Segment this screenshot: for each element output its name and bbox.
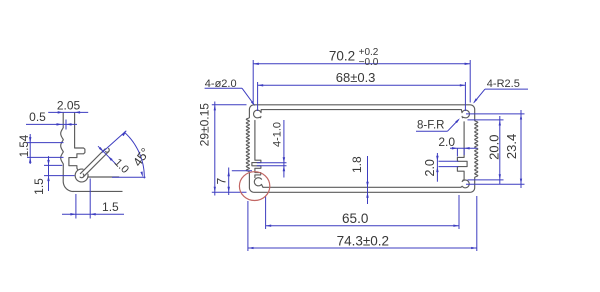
dim 23.4 hole spacing (right) (466, 113, 525, 115)
dim 74.3±0.2 overall width (247, 201, 249, 251)
svg-text:−0.0: −0.0 (359, 57, 379, 68)
detail: slot outer end cap (106, 148, 110, 152)
dim 1.0 slot width (98, 146, 116, 164)
detail: boss pedestal ledge (88, 176, 119, 177)
svg-text:7: 7 (215, 178, 229, 185)
svg-text:70.2: 70.2 (329, 48, 355, 63)
red detail callout circle (239, 172, 269, 201)
detail: screw boss circle with 45° slot (75, 169, 88, 182)
svg-text:2.05: 2.05 (57, 98, 81, 112)
dim 65.0 inner width (265, 196, 267, 229)
left inner wall with T-slot groove (252, 120, 261, 177)
svg-text:+0.2: +0.2 (359, 47, 379, 58)
svg-text:4-R2.5: 4-R2.5 (487, 78, 520, 90)
inner bottom wall line (263, 186, 461, 188)
svg-text:29±0.15: 29±0.15 (197, 103, 211, 147)
svg-text:1.5: 1.5 (102, 200, 119, 214)
detail: bottom outer wall (73, 190, 122, 192)
svg-text:2.0: 2.0 (438, 135, 455, 149)
detail: outer left wall with wavy serration (61, 113, 74, 192)
top-right screw boss (461, 110, 469, 118)
detail: slot inner end cap (80, 174, 84, 178)
svg-text:1.8: 1.8 (350, 156, 364, 173)
dim 20.0 boss gap (right) (468, 119, 504, 121)
svg-text:23.4: 23.4 (504, 134, 519, 159)
svg-text:1.5: 1.5 (32, 178, 46, 195)
right inner wall with card-guide slot (457, 122, 467, 180)
detail: slot edge lines (80, 148, 105, 173)
enclosure outer profile with serrated sides (246, 105, 477, 193)
svg-text:65.0: 65.0 (342, 211, 368, 226)
svg-text:74.3±0.2: 74.3±0.2 (337, 233, 389, 248)
svg-text:4-1.0: 4-1.0 (272, 122, 284, 147)
dim 70.2 +0.2/-0.0 top width (252, 60, 254, 103)
svg-text:2.0: 2.0 (423, 159, 437, 176)
detail: inner wall with T-slot groove (69, 113, 85, 170)
top-left screw boss (254, 110, 262, 118)
bottom-right screw boss (461, 180, 469, 188)
bottom-left screw boss (254, 178, 263, 188)
dim 29±0.15 height (212, 104, 247, 106)
inner top wall line (261, 109, 461, 111)
svg-text:0.5: 0.5 (29, 110, 46, 124)
dim 45° angle (112, 176, 146, 178)
dim 68±0.3 hole spacing (257, 82, 259, 111)
svg-text:8-F.R: 8-F.R (417, 120, 444, 132)
svg-text:68±0.3: 68±0.3 (336, 70, 376, 85)
dim 7 slot to bottom (232, 170, 252, 172)
svg-text:20.0: 20.0 (486, 135, 501, 160)
